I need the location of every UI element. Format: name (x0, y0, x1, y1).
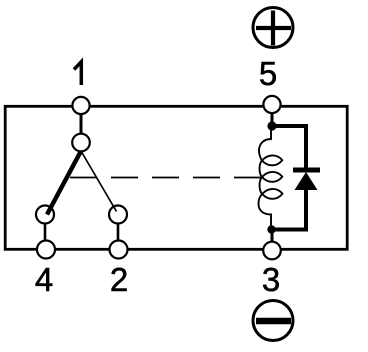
svg-text:5: 5 (259, 55, 277, 92)
junction dot bottom (267, 225, 275, 233)
switch pivot circle (72, 134, 90, 152)
junction dot top (267, 121, 276, 130)
diode D1 anode triangle (295, 172, 318, 190)
relay body outline (5, 106, 347, 249)
diode branch bottom wire (272, 228, 306, 232)
pin 5 terminal circle (263, 96, 280, 113)
pin 3 terminal circle (263, 242, 281, 260)
NO contact circle (36, 206, 54, 224)
diode branch right wire upper (304, 124, 308, 170)
diode branch right wire lower (304, 190, 308, 232)
coil L1 (258, 127, 282, 230)
pin 4 terminal circle (37, 241, 55, 259)
wire pin5 to coil top junction (271, 112, 274, 126)
svg-text:4: 4 (35, 261, 53, 298)
wire coil bottom junction to pin3 (271, 230, 274, 243)
svg-text:3: 3 (262, 261, 280, 298)
NC contact circle (109, 206, 127, 224)
wire pin1 to pivot (80, 113, 83, 135)
diode branch top wire (272, 124, 306, 128)
positive supply symbol (253, 8, 293, 48)
dashed actuation link to coil (70, 177, 262, 179)
wire contact NO to pin4 (44, 223, 47, 241)
switch lever (common to NO contact) (47, 151, 81, 215)
svg-text:2: 2 (110, 261, 128, 298)
wire contact NC to pin2 (117, 223, 120, 241)
pin label 1 (74, 62, 81, 85)
pin 1 terminal circle (72, 97, 89, 114)
pin 2 terminal circle (110, 241, 128, 259)
switch NC link (thin) (81, 151, 117, 212)
diode D1 cathode bar (293, 168, 320, 173)
negative supply symbol (253, 301, 293, 341)
